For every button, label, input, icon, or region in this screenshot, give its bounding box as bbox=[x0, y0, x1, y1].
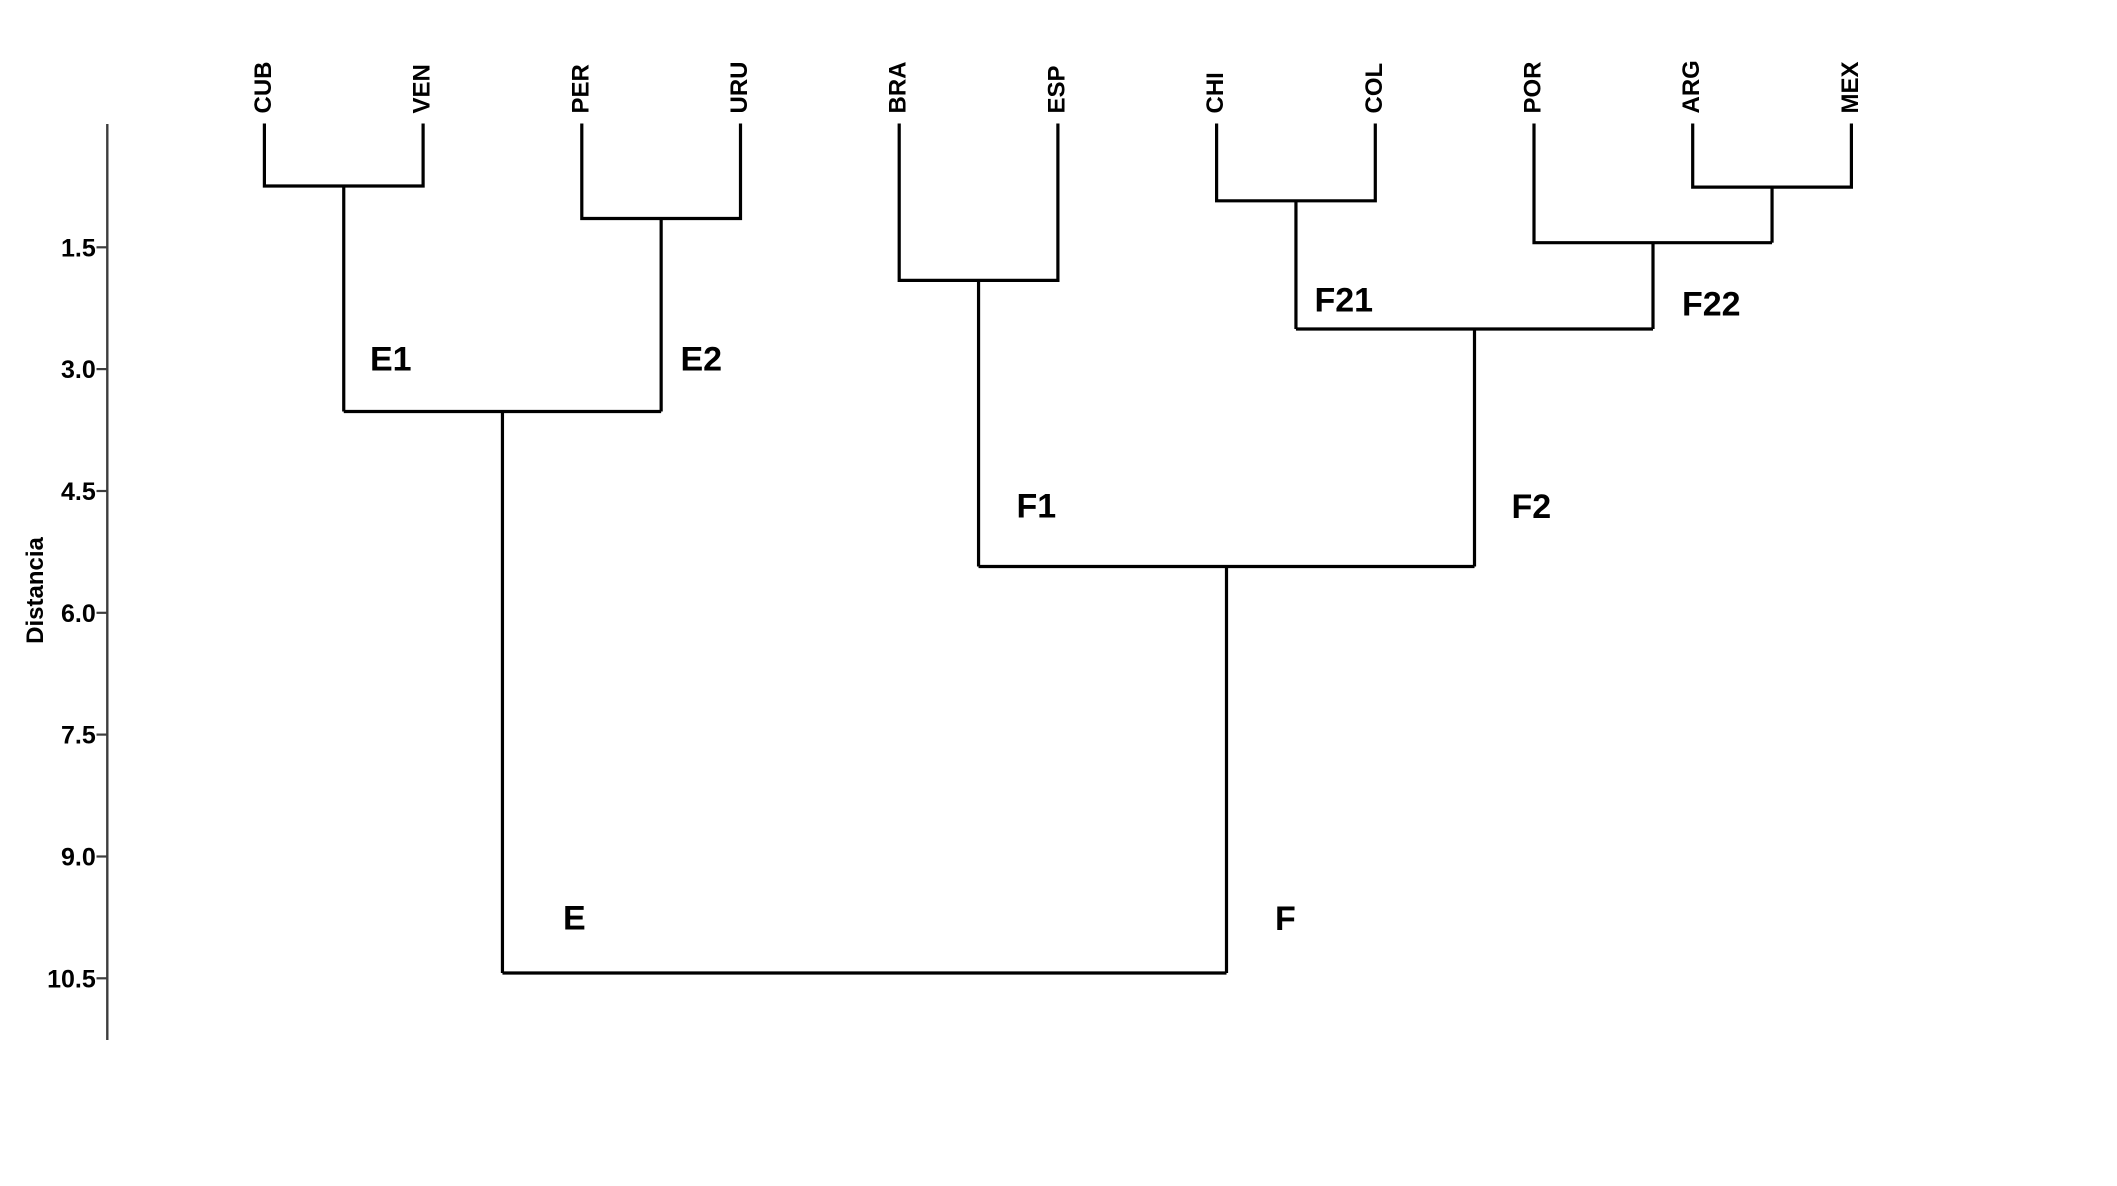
svg-text:9.0: 9.0 bbox=[61, 844, 96, 872]
svg-text:VEN: VEN bbox=[409, 64, 436, 113]
cluster F1 horizontal bbox=[979, 565, 1475, 568]
svg-text:E: E bbox=[563, 900, 586, 938]
svg-text:E1: E1 bbox=[370, 341, 412, 379]
svg-text:1.5: 1.5 bbox=[61, 234, 96, 262]
svg-text:ESP: ESP bbox=[1043, 65, 1070, 113]
svg-text:Distancia: Distancia bbox=[22, 536, 49, 643]
stem E2 bbox=[660, 219, 663, 412]
cluster ARG+MEX bracket bbox=[1693, 124, 1852, 188]
axis line bbox=[106, 124, 108, 1040]
stem F21 bbox=[1294, 201, 1297, 329]
svg-text:4.5: 4.5 bbox=[61, 478, 96, 506]
cluster PER+URU bracket bbox=[582, 124, 741, 219]
svg-text:F22: F22 bbox=[1682, 286, 1741, 324]
stem F22 bbox=[1651, 243, 1654, 329]
svg-text:F1: F1 bbox=[1017, 488, 1057, 526]
svg-text:URU: URU bbox=[726, 62, 753, 114]
stem F1 bbox=[977, 280, 980, 566]
cluster CUB+VEN bracket bbox=[264, 124, 423, 187]
leaf POR line and cluster F22 horizontal bbox=[1534, 124, 1772, 243]
svg-text:F: F bbox=[1275, 900, 1296, 938]
svg-text:F21: F21 bbox=[1315, 282, 1374, 320]
root horizontal E+F bbox=[502, 971, 1226, 974]
svg-text:COL: COL bbox=[1361, 63, 1388, 114]
svg-text:BRA: BRA bbox=[885, 62, 912, 114]
svg-text:10.5: 10.5 bbox=[47, 965, 96, 993]
svg-text:MEX: MEX bbox=[1837, 61, 1864, 113]
svg-text:CUB: CUB bbox=[250, 62, 277, 114]
cluster F2 horizontal bbox=[1296, 327, 1653, 330]
svg-text:POR: POR bbox=[1520, 61, 1547, 113]
cluster E horizontal bbox=[344, 410, 661, 413]
svg-text:F2: F2 bbox=[1512, 488, 1552, 526]
svg-text:ARG: ARG bbox=[1678, 60, 1705, 113]
axis ticks bbox=[97, 247, 108, 978]
svg-text:E2: E2 bbox=[681, 341, 723, 379]
svg-text:7.5: 7.5 bbox=[61, 722, 96, 750]
stem F bbox=[1225, 567, 1228, 974]
cluster labels bbox=[370, 282, 1741, 939]
leaf labels bbox=[250, 60, 1864, 113]
stem E bbox=[501, 412, 504, 974]
svg-text:CHI: CHI bbox=[1202, 72, 1229, 113]
dendrogram tree bbox=[264, 124, 1851, 974]
cluster CHI+COL bracket bbox=[1217, 124, 1376, 201]
svg-text:6.0: 6.0 bbox=[61, 600, 96, 628]
svg-text:PER: PER bbox=[567, 64, 594, 113]
svg-text:3.0: 3.0 bbox=[61, 356, 96, 384]
axis tick labels bbox=[47, 234, 96, 993]
stem F2 bbox=[1473, 329, 1476, 567]
stem ARG+MEX bbox=[1770, 187, 1773, 243]
cluster BRA+ESP bracket bbox=[899, 124, 1058, 281]
stem E1 bbox=[342, 186, 345, 412]
